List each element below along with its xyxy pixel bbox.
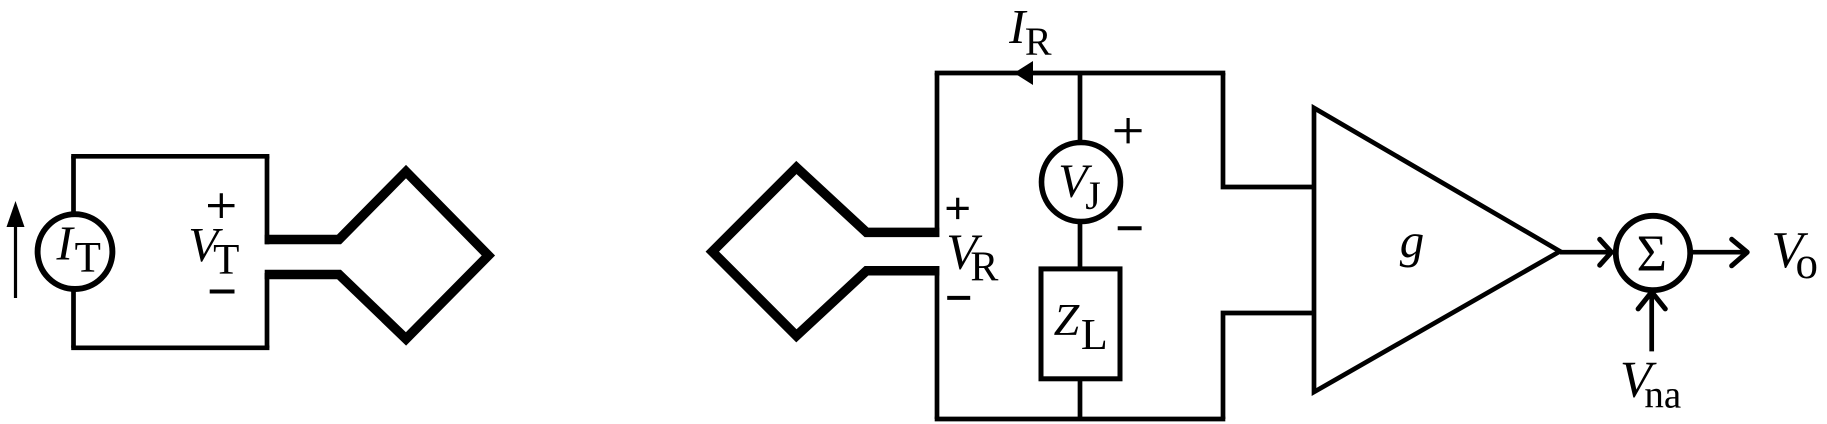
label I_R xyxy=(1008,0,1052,64)
label V_T xyxy=(188,217,239,284)
label V_J xyxy=(1058,155,1101,218)
voltage source V_J xyxy=(1042,143,1121,222)
wire: left loop right lower xyxy=(265,273,270,348)
label + (V_T) xyxy=(208,193,235,218)
arrowhead V_o output xyxy=(1732,239,1748,265)
wire: right top stub xyxy=(1223,73,1313,187)
svg-text:T: T xyxy=(213,237,239,284)
label V_na xyxy=(1620,352,1681,417)
label I_T xyxy=(56,216,101,282)
wire: left loop left xyxy=(71,156,76,347)
wire: left loop right upper xyxy=(265,156,270,244)
op-amp g xyxy=(1314,108,1560,392)
svg-text:o: o xyxy=(1796,238,1819,288)
label V_o xyxy=(1771,222,1818,288)
label − (V_T) xyxy=(210,290,235,294)
wire: summer output xyxy=(1691,250,1745,255)
svg-text:Σ: Σ xyxy=(1637,225,1667,282)
svg-text:I: I xyxy=(56,216,76,271)
svg-text:R: R xyxy=(1025,19,1052,64)
wire: receiver loop left lower xyxy=(935,266,940,419)
current direction arrow I_T xyxy=(7,201,25,298)
arrowhead into summer xyxy=(1600,239,1612,265)
wire: right bottom stub xyxy=(1223,313,1313,419)
antenna: transmit bowtie xyxy=(265,172,489,339)
svg-text:T: T xyxy=(75,235,101,282)
svg-text:L: L xyxy=(1081,310,1108,359)
label Z_L xyxy=(1054,294,1108,359)
label + (V_R) xyxy=(947,198,969,219)
svg-text:na: na xyxy=(1644,374,1681,417)
label + (V_J) xyxy=(1115,118,1142,143)
label − (V_J) xyxy=(1118,226,1142,230)
svg-text:Z: Z xyxy=(1054,294,1080,345)
wire: amp output xyxy=(1560,250,1609,255)
impedance Z_L xyxy=(1041,269,1120,379)
antenna: receive bowtie xyxy=(712,168,939,336)
wire: receiver loop bottom xyxy=(935,417,1226,422)
wire: left loop bottom xyxy=(71,345,269,350)
wire: V_J / Z_L branch xyxy=(1078,73,1083,419)
arrowhead I_R xyxy=(1014,61,1033,85)
label − (V_R) xyxy=(947,296,970,300)
label V_R xyxy=(946,225,998,290)
current source I_T xyxy=(38,214,113,289)
arrowhead V_na xyxy=(1638,292,1665,309)
wire: receiver loop top xyxy=(935,71,1226,76)
svg-text:R: R xyxy=(970,244,998,290)
wire: left loop top xyxy=(71,154,269,159)
wire: V_na input xyxy=(1649,294,1654,351)
svg-text:J: J xyxy=(1085,173,1101,218)
wire: receiver loop left upper xyxy=(935,73,940,237)
svg-text:g: g xyxy=(1400,213,1425,268)
summer Σ xyxy=(1616,216,1690,290)
